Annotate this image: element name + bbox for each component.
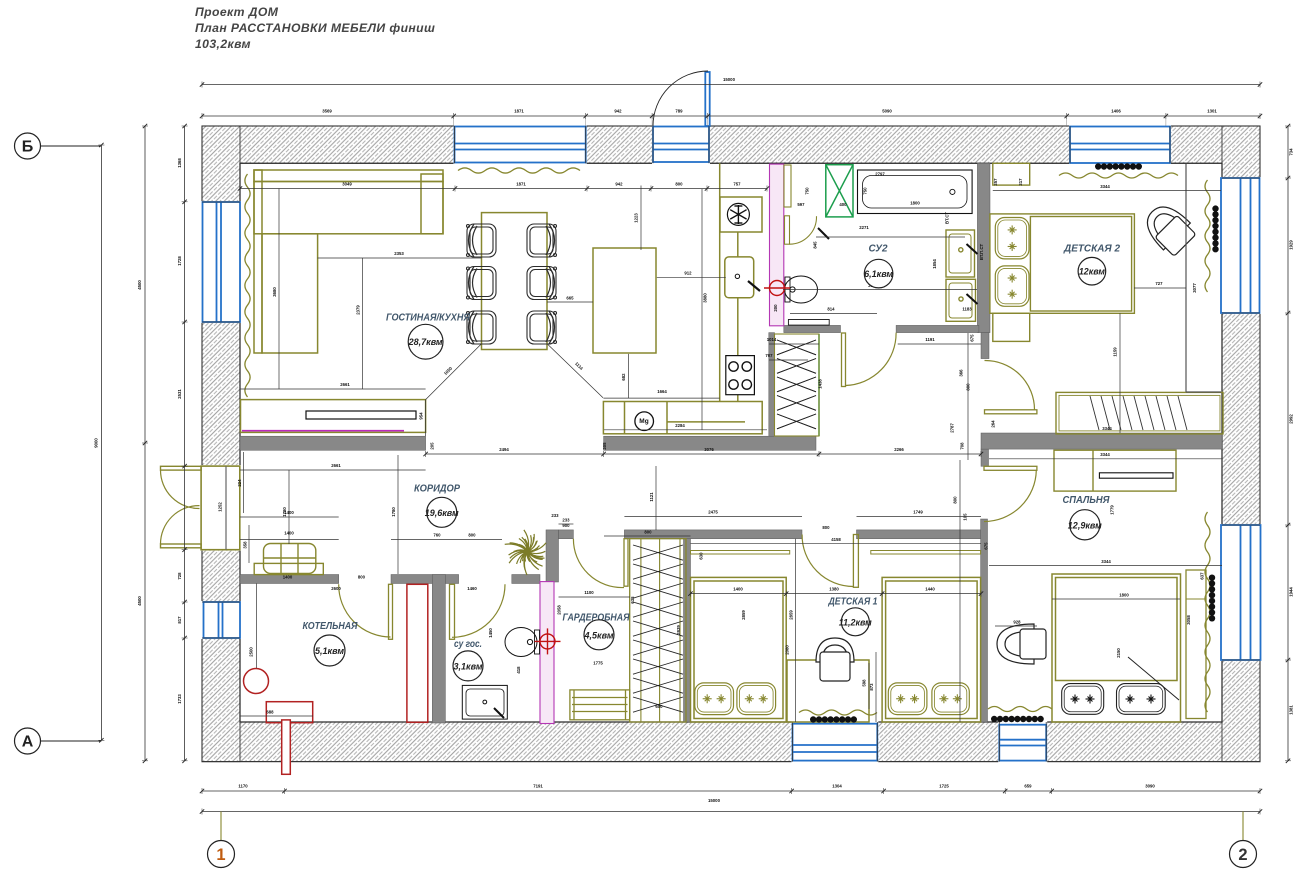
- svg-text:2661: 2661: [331, 463, 341, 468]
- svg-text:103,2квм: 103,2квм: [195, 37, 251, 51]
- svg-text:630: 630: [699, 552, 704, 560]
- svg-text:Проект ДОМ: Проект ДОМ: [195, 5, 279, 19]
- svg-text:1183: 1183: [962, 307, 972, 312]
- svg-text:734: 734: [1289, 148, 1294, 156]
- svg-text:800: 800: [953, 496, 958, 504]
- svg-text:СУ2: СУ2: [869, 244, 888, 255]
- svg-text:3,1квм: 3,1квм: [454, 661, 483, 672]
- svg-text:928: 928: [1013, 620, 1021, 625]
- svg-text:1944: 1944: [1289, 587, 1294, 597]
- svg-text:3077: 3077: [1192, 283, 1197, 293]
- svg-text:873: 873: [869, 683, 874, 691]
- svg-text:5090: 5090: [882, 109, 892, 114]
- svg-text:400: 400: [839, 202, 847, 207]
- svg-text:1929: 1929: [1289, 240, 1294, 250]
- svg-text:1: 1: [216, 846, 225, 864]
- svg-text:675: 675: [984, 542, 989, 550]
- svg-text:800: 800: [358, 575, 366, 580]
- svg-text:4158: 4158: [831, 537, 841, 542]
- svg-text:750: 750: [863, 187, 868, 195]
- svg-text:800: 800: [822, 525, 830, 530]
- svg-text:1450: 1450: [488, 628, 493, 638]
- svg-text:ДЕТСКАЯ 1: ДЕТСКАЯ 1: [828, 597, 878, 608]
- svg-text:су гос.: су гос.: [454, 639, 482, 650]
- svg-text:814: 814: [827, 307, 835, 312]
- svg-text:3680: 3680: [272, 287, 277, 297]
- svg-text:2531: 2531: [177, 389, 182, 399]
- svg-text:4,5квм: 4,5квм: [584, 630, 614, 641]
- svg-text:2859: 2859: [789, 610, 794, 620]
- svg-text:3344: 3344: [1101, 559, 1111, 564]
- svg-text:954: 954: [419, 412, 424, 420]
- svg-text:1368: 1368: [177, 158, 182, 168]
- svg-text:1301: 1301: [1207, 109, 1217, 114]
- svg-text:638: 638: [630, 596, 635, 604]
- svg-text:28,7квм: 28,7квм: [408, 337, 443, 348]
- svg-text:2797: 2797: [875, 172, 885, 177]
- svg-text:2600: 2600: [331, 586, 341, 591]
- svg-text:КОРИДОР: КОРИДОР: [414, 484, 460, 495]
- svg-text:2266: 2266: [894, 447, 904, 452]
- svg-text:200: 200: [773, 304, 778, 312]
- svg-text:3049: 3049: [342, 182, 352, 187]
- svg-text:597: 597: [797, 202, 805, 207]
- svg-text:800: 800: [966, 383, 971, 391]
- svg-text:Б: Б: [22, 139, 34, 156]
- svg-text:2284: 2284: [675, 423, 685, 428]
- svg-text:СПАЛЬНЯ: СПАЛЬНЯ: [1063, 495, 1111, 506]
- svg-text:ГОСТИНАЯ/КУХНЯ: ГОСТИНАЯ/КУХНЯ: [386, 313, 471, 324]
- svg-text:1380: 1380: [829, 587, 839, 592]
- svg-text:418: 418: [516, 666, 521, 674]
- svg-text:9000: 9000: [94, 438, 99, 448]
- svg-text:11,2квм: 11,2квм: [839, 617, 872, 628]
- svg-text:659: 659: [1024, 784, 1032, 789]
- svg-text:ДЕТСКАЯ 2: ДЕТСКАЯ 2: [1063, 244, 1120, 255]
- svg-text:3344: 3344: [1100, 452, 1110, 457]
- svg-text:1780: 1780: [391, 507, 396, 517]
- svg-text:2058: 2058: [557, 605, 562, 615]
- svg-text:817: 817: [177, 616, 182, 624]
- svg-text:1728: 1728: [177, 256, 182, 266]
- svg-text:358: 358: [243, 541, 248, 549]
- svg-text:845: 845: [813, 241, 818, 249]
- svg-text:637: 637: [1200, 572, 1205, 580]
- svg-text:257: 257: [993, 178, 998, 186]
- svg-text:3569: 3569: [322, 109, 332, 114]
- svg-text:727: 727: [1155, 281, 1163, 286]
- svg-text:3344: 3344: [1102, 426, 1112, 431]
- svg-text:4500: 4500: [137, 280, 142, 290]
- svg-text:800: 800: [468, 533, 476, 538]
- svg-text:1400: 1400: [733, 587, 743, 592]
- svg-text:1100: 1100: [584, 590, 594, 595]
- svg-text:1854: 1854: [932, 259, 937, 269]
- svg-text:1406: 1406: [1111, 109, 1121, 114]
- svg-text:600: 600: [655, 704, 663, 709]
- svg-text:7191: 7191: [533, 784, 543, 789]
- svg-text:912: 912: [684, 270, 692, 275]
- svg-text:1871: 1871: [514, 109, 524, 114]
- svg-text:1800: 1800: [910, 201, 920, 206]
- svg-text:233: 233: [551, 513, 559, 518]
- svg-text:2839: 2839: [676, 625, 681, 635]
- svg-text:1381: 1381: [1289, 705, 1294, 715]
- svg-text:1159: 1159: [1113, 347, 1118, 357]
- svg-text:12,9квм: 12,9квм: [1068, 520, 1102, 531]
- svg-text:205: 205: [430, 442, 435, 450]
- svg-text:800: 800: [675, 182, 683, 187]
- svg-text:1749: 1749: [913, 510, 923, 515]
- svg-text:2787: 2787: [950, 423, 955, 433]
- svg-text:ВТ.П.СТ: ВТ.П.СТ: [979, 244, 984, 261]
- svg-text:3344: 3344: [1100, 184, 1110, 189]
- svg-text:757: 757: [733, 182, 741, 187]
- svg-text:1400: 1400: [284, 531, 294, 536]
- svg-text:2494: 2494: [499, 447, 509, 452]
- svg-text:2353: 2353: [394, 251, 404, 256]
- svg-text:4500: 4500: [137, 596, 142, 606]
- svg-text:Mg: Mg: [639, 418, 648, 425]
- svg-text:217: 217: [1018, 178, 1023, 186]
- svg-text:1191: 1191: [925, 337, 935, 342]
- svg-text:1460: 1460: [467, 586, 477, 591]
- svg-text:1400: 1400: [283, 575, 293, 580]
- svg-text:2475: 2475: [708, 510, 718, 515]
- svg-text:1252: 1252: [218, 502, 223, 512]
- svg-text:708: 708: [960, 442, 965, 450]
- svg-text:1664: 1664: [657, 389, 667, 394]
- svg-text:1775: 1775: [593, 661, 603, 666]
- svg-text:942: 942: [615, 182, 623, 187]
- svg-text:1871: 1871: [516, 182, 526, 187]
- svg-text:760: 760: [433, 533, 441, 538]
- svg-text:2271: 2271: [859, 225, 869, 230]
- svg-text:1779: 1779: [1110, 505, 1115, 515]
- svg-text:1440: 1440: [925, 587, 935, 592]
- svg-text:750: 750: [805, 187, 810, 195]
- svg-text:План РАССТАНОВКИ МЕБЕЛИ финиш: План РАССТАНОВКИ МЕБЕЛИ финиш: [195, 21, 435, 35]
- svg-text:15000: 15000: [723, 77, 736, 82]
- svg-text:942: 942: [614, 109, 622, 114]
- svg-text:3880: 3880: [703, 293, 708, 303]
- svg-text:2859: 2859: [741, 610, 746, 620]
- svg-text:800: 800: [644, 530, 652, 535]
- svg-text:2379: 2379: [356, 305, 361, 315]
- svg-text:12квм: 12квм: [1079, 267, 1105, 278]
- svg-text:1733: 1733: [177, 694, 182, 704]
- svg-text:КОТЕЛЬНАЯ: КОТЕЛЬНАЯ: [303, 621, 359, 632]
- svg-text:665: 665: [566, 296, 574, 301]
- svg-text:1438: 1438: [818, 379, 823, 389]
- svg-text:1223: 1223: [634, 213, 639, 223]
- svg-text:2: 2: [1238, 846, 1247, 864]
- svg-text:6,1квм: 6,1квм: [864, 269, 893, 280]
- svg-text:707: 707: [765, 353, 773, 358]
- svg-text:3076: 3076: [704, 447, 714, 452]
- svg-text:224: 224: [237, 479, 242, 487]
- svg-text:2080: 2080: [785, 645, 790, 655]
- svg-text:А: А: [22, 734, 34, 751]
- svg-text:1800: 1800: [1119, 593, 1129, 598]
- svg-text:3058: 3058: [1186, 615, 1191, 625]
- svg-text:ВТ.СТ: ВТ.СТ: [945, 212, 950, 224]
- svg-text:2500: 2500: [249, 647, 254, 657]
- svg-text:675: 675: [970, 334, 975, 342]
- svg-text:205: 205: [602, 442, 607, 450]
- svg-text:900: 900: [562, 523, 570, 528]
- svg-text:1121: 1121: [649, 492, 654, 502]
- svg-text:1014: 1014: [767, 337, 777, 342]
- svg-text:3090: 3090: [1145, 784, 1155, 789]
- svg-text:598: 598: [862, 679, 867, 687]
- svg-text:2661: 2661: [340, 382, 350, 387]
- svg-text:264: 264: [991, 420, 996, 428]
- svg-text:1304: 1304: [832, 784, 842, 789]
- svg-text:19,6квм: 19,6квм: [425, 508, 459, 519]
- svg-text:2150: 2150: [1116, 648, 1121, 658]
- svg-text:682: 682: [621, 373, 626, 381]
- svg-text:728: 728: [177, 572, 182, 580]
- svg-text:2992: 2992: [1289, 414, 1294, 424]
- svg-text:1400: 1400: [284, 510, 294, 515]
- svg-text:1170: 1170: [238, 784, 248, 789]
- svg-text:789: 789: [675, 109, 683, 114]
- svg-text:233: 233: [562, 518, 570, 523]
- svg-text:1725: 1725: [939, 784, 949, 789]
- svg-text:366: 366: [959, 369, 964, 377]
- svg-text:15000: 15000: [708, 798, 721, 803]
- svg-text:688: 688: [266, 710, 274, 715]
- svg-text:5,1квм: 5,1квм: [315, 646, 344, 657]
